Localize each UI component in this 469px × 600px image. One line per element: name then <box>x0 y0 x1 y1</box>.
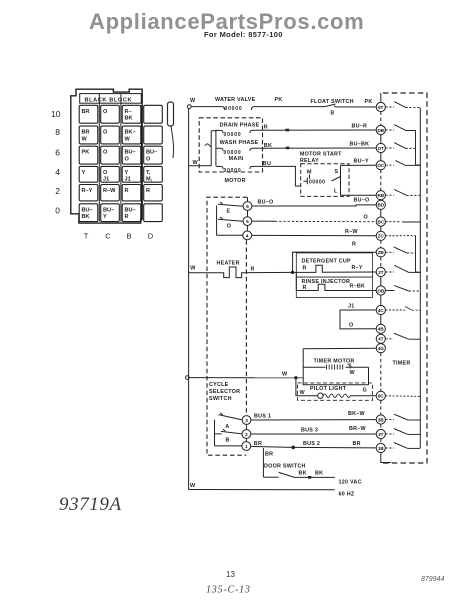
connector dot BK door <box>308 476 311 479</box>
svg-text:RELAY: RELAY <box>300 158 319 164</box>
svg-text:MAIN: MAIN <box>229 156 244 162</box>
terminal OB <box>376 286 385 295</box>
terminal ZB <box>376 248 385 257</box>
connector outline <box>71 89 142 223</box>
svg-text:BR: BR <box>82 109 90 115</box>
terminal 4 <box>243 231 252 240</box>
svg-text:BLACK BLOCK: BLACK BLOCK <box>85 97 133 103</box>
svg-text:DRAIN PHASE: DRAIN PHASE <box>220 122 260 128</box>
svg-text:00000: 00000 <box>309 180 325 186</box>
cycle selector right dashed edge <box>245 240 247 415</box>
svg-text:W: W <box>190 98 196 104</box>
wire 1B to bottom edge <box>381 453 391 463</box>
junction dot heater R <box>291 271 294 274</box>
motor internal rail 2 <box>211 130 216 166</box>
switch 2T <box>385 271 394 273</box>
cell row0 col D <box>144 204 163 222</box>
switch 4T <box>385 338 393 340</box>
switch OC <box>385 164 394 166</box>
svg-text:1B: 1B <box>378 446 385 451</box>
switch ZB <box>385 251 394 253</box>
svg-text:FLOAT SWITCH: FLOAT SWITCH <box>311 99 354 105</box>
terminal RB <box>376 191 385 200</box>
terminal OT <box>376 143 385 152</box>
svg-text:BU: BU <box>263 161 271 167</box>
svg-text:R: R <box>303 285 307 291</box>
wire terminal 6 drop <box>247 197 249 201</box>
main winding coil curls <box>216 166 254 169</box>
svg-text:120 VAC: 120 VAC <box>339 479 362 485</box>
cell row4 col D <box>144 166 163 182</box>
svg-text:SWITCH: SWITCH <box>209 396 232 402</box>
wire BU main winding <box>254 166 301 186</box>
junction dot W mid <box>294 376 297 379</box>
svg-text:4: 4 <box>55 167 60 177</box>
svg-text:O: O <box>125 157 130 163</box>
svg-text:BU–: BU– <box>82 207 93 213</box>
row number labels <box>51 109 61 216</box>
wire BUS 3 <box>251 433 376 435</box>
switch 8C <box>385 395 420 398</box>
terminal BD <box>376 200 385 209</box>
cell row8 col D <box>144 126 163 144</box>
svg-text:M,: M, <box>146 177 153 183</box>
svg-text:4C: 4C <box>378 308 385 313</box>
svg-text:A: A <box>225 424 229 430</box>
cell row4 col T <box>79 166 98 182</box>
svg-text:OT: OT <box>378 146 385 151</box>
wire 6-5-4 column <box>246 210 248 231</box>
column separator C/B <box>120 94 122 222</box>
wire terminal 4 left <box>217 234 243 236</box>
terminal 6T <box>376 102 385 111</box>
svg-text:BU–O: BU–O <box>258 200 274 206</box>
svg-text:2: 2 <box>55 186 60 196</box>
wire R junction up to ZB <box>293 252 377 272</box>
motor enclosure dashed box <box>199 118 262 172</box>
relay S-L vertical <box>340 165 342 195</box>
svg-text:BC: BC <box>377 219 384 224</box>
jumper J1 loop <box>340 310 376 329</box>
svg-text:TIMER MOTOR: TIMER MOTOR <box>314 358 355 364</box>
cell row8 col C <box>101 126 120 144</box>
terminal 8C <box>376 391 385 400</box>
heater element <box>189 267 248 278</box>
terminal 2 <box>242 430 251 439</box>
switch OT <box>385 147 394 149</box>
svg-text:4T: 4T <box>378 337 384 342</box>
door switch branch drop <box>262 448 264 477</box>
switch E blade <box>218 202 243 206</box>
svg-text:BR: BR <box>82 130 90 136</box>
svg-text:R: R <box>125 214 129 220</box>
cell wire labels <box>82 109 158 220</box>
svg-text:8C: 8C <box>378 394 385 399</box>
cell row8 col B <box>122 126 141 144</box>
wire BU-O relay L to RB <box>341 194 377 196</box>
wire W mid <box>189 377 304 379</box>
cell row6 col T <box>79 146 98 164</box>
terminal 1 <box>242 442 251 451</box>
svg-text:W: W <box>190 266 196 272</box>
svg-text:879944: 879944 <box>421 576 444 583</box>
cell row6 col B <box>122 146 141 164</box>
cell row10 col B <box>122 105 141 123</box>
switch DB <box>385 129 394 131</box>
svg-text:W: W <box>125 136 131 142</box>
terminal BC <box>376 217 385 226</box>
svg-text:Y: Y <box>125 170 129 176</box>
terminal DB <box>376 125 385 134</box>
svg-text:BK: BK <box>82 214 90 220</box>
svg-text:O: O <box>103 170 108 176</box>
timer column dashed segments <box>380 112 382 444</box>
svg-text:ZB: ZB <box>378 250 385 255</box>
svg-text:00000: 00000 <box>225 106 243 112</box>
svg-text:3T: 3T <box>378 432 384 437</box>
wire water valve feed <box>191 106 222 108</box>
cell row8 col T <box>79 126 98 144</box>
wire R-W terminal 4 to ZC <box>252 234 377 236</box>
svg-text:BK–W: BK–W <box>348 411 366 417</box>
connector dot R wire <box>286 129 290 132</box>
black block title box <box>80 94 142 104</box>
switch RB <box>385 194 394 196</box>
terminal 5 <box>243 217 252 226</box>
detergent cup actuator <box>293 265 377 272</box>
column letter labels <box>84 232 154 241</box>
motor internal rail 1 <box>210 131 212 166</box>
bus tie at OC row <box>416 164 421 166</box>
svg-text:BK: BK <box>299 471 307 477</box>
svg-text:BUS 1: BUS 1 <box>254 413 271 419</box>
connector cells grid <box>79 105 162 221</box>
wire BUS 1 <box>251 419 376 421</box>
terminal 2T <box>376 267 385 276</box>
motor thermal protector <box>204 144 211 147</box>
drain phase coil curls <box>216 130 254 133</box>
selector pivot rail lower <box>214 420 216 446</box>
svg-text:DOOR SWITCH: DOOR SWITCH <box>264 464 306 470</box>
svg-text:R–Y: R–Y <box>352 265 363 271</box>
svg-text:J1: J1 <box>125 177 131 183</box>
switch 1B <box>385 447 394 449</box>
cell row6 col C <box>101 146 120 164</box>
svg-text:BR–W: BR–W <box>349 426 367 432</box>
terminal 4B <box>376 324 385 333</box>
svg-text:PK: PK <box>82 150 90 156</box>
svg-text:5: 5 <box>246 219 249 224</box>
timer motor coil hatches <box>327 365 343 370</box>
svg-text:T,: T, <box>146 170 151 176</box>
svg-text:WATER VALVE: WATER VALVE <box>215 97 256 103</box>
svg-text:PK: PK <box>365 99 373 105</box>
door switch blade <box>279 472 295 477</box>
svg-text:R: R <box>352 241 356 247</box>
svg-text:60 HZ: 60 HZ <box>339 492 355 498</box>
cycle selector switch dashed box <box>207 197 247 455</box>
svg-text:R–BK: R–BK <box>350 284 366 290</box>
svg-text:R: R <box>125 188 129 194</box>
svg-text:1: 1 <box>245 444 248 449</box>
switch OB <box>385 290 394 292</box>
svg-text:BK: BK <box>315 471 323 477</box>
svg-text:OB: OB <box>377 288 385 293</box>
svg-text:O: O <box>103 130 108 136</box>
svg-text:G: G <box>363 387 367 393</box>
svg-text:BR: BR <box>254 441 262 447</box>
cell row4 col B <box>122 166 141 182</box>
switch 6T <box>385 106 394 108</box>
svg-text:J1: J1 <box>348 303 355 309</box>
pin lead arc <box>171 127 174 159</box>
relay M stub <box>309 175 311 179</box>
cell row10 col C <box>101 105 120 123</box>
svg-text:W: W <box>300 390 306 396</box>
switch ZC <box>385 235 415 237</box>
wire BK door switch left <box>263 476 278 478</box>
selector pivot rail upper <box>216 206 218 236</box>
svg-text:R–W: R–W <box>345 229 358 235</box>
bus tie at 2T row <box>416 271 421 273</box>
svg-text:W: W <box>193 160 199 166</box>
svg-text:BU–: BU– <box>103 207 114 213</box>
switch BC <box>385 221 401 223</box>
svg-text:SELECTOR: SELECTOR <box>209 389 240 395</box>
svg-text:BK: BK <box>264 143 272 149</box>
switch B blade <box>215 429 243 434</box>
svg-text:RINSE INJECTOR: RINSE INJECTOR <box>302 279 351 285</box>
wire R heater to junction <box>248 271 293 273</box>
svg-text:6: 6 <box>246 204 249 209</box>
cell row0 col T <box>79 204 98 222</box>
svg-text:C: C <box>105 232 111 241</box>
svg-text:E: E <box>227 209 231 215</box>
svg-text:B: B <box>226 437 230 443</box>
svg-text:R: R <box>264 125 268 131</box>
svg-text:DB: DB <box>377 128 384 133</box>
svg-text:O: O <box>146 157 151 163</box>
svg-text:PK: PK <box>275 97 283 103</box>
timer terminal column line <box>380 93 382 344</box>
svg-text:BU–Y: BU–Y <box>354 159 370 165</box>
wire terminal 1 left <box>215 445 243 447</box>
cell row10 col D <box>144 105 163 123</box>
wire BK wash phase <box>254 147 377 149</box>
detergent cup enclosure <box>296 253 372 277</box>
wire 3-2 column <box>245 424 247 443</box>
pilot light filament wave <box>323 394 350 397</box>
junction dot BUS 2 <box>291 446 295 450</box>
float switch blade <box>325 104 337 107</box>
svg-text:BUS 2: BUS 2 <box>303 441 320 447</box>
column separator T/C <box>98 94 100 222</box>
svg-text:BK: BK <box>125 116 133 122</box>
svg-text:TIMER: TIMER <box>393 361 411 367</box>
svg-text:0: 0 <box>55 206 60 216</box>
switch 4C <box>385 309 405 311</box>
terminal 4T <box>376 334 385 343</box>
terminal 3 <box>242 416 251 425</box>
pilot light enclosure <box>298 383 373 400</box>
svg-text:R–W: R–W <box>103 188 116 194</box>
motor start relay dashed box <box>301 164 349 197</box>
terminal OC <box>376 161 385 170</box>
svg-text:O: O <box>103 150 108 156</box>
cell row6 col D <box>144 146 163 164</box>
wire BU-Y relay to OC <box>341 164 377 166</box>
svg-text:W: W <box>190 483 196 489</box>
wire BU-O terminal 6 to BD <box>252 205 376 206</box>
wire R junction down to rinse row <box>295 272 297 290</box>
switch A blade <box>218 413 242 420</box>
cell row0 col B <box>122 204 141 222</box>
wire W drop to pilot light <box>296 378 318 396</box>
svg-text:00000: 00000 <box>224 132 242 138</box>
svg-text:B: B <box>126 232 131 241</box>
wire BK door switch right <box>295 476 335 478</box>
svg-text:BU–: BU– <box>125 150 136 156</box>
wire PK water valve to float switch <box>254 106 325 108</box>
wire 4G to timer motor <box>303 347 376 350</box>
svg-text:6: 6 <box>55 147 60 157</box>
svg-text:Y: Y <box>82 170 86 176</box>
svg-text:R–: R– <box>125 109 132 115</box>
svg-text:00000: 00000 <box>224 168 242 174</box>
svg-text:HEATER: HEATER <box>217 261 240 267</box>
svg-text:BR: BR <box>353 441 361 447</box>
svg-text:BU–: BU– <box>146 150 157 156</box>
svg-text:ZC: ZC <box>378 234 385 239</box>
svg-text:2T: 2T <box>378 270 384 275</box>
wash phase coil curls <box>216 148 254 151</box>
switch O blade <box>218 217 243 221</box>
svg-text:MOTOR: MOTOR <box>225 178 246 184</box>
terminal 6 <box>243 202 252 211</box>
terminal 3T <box>376 429 385 438</box>
svg-text:4B: 4B <box>378 327 385 332</box>
water valve coil curls <box>222 107 254 110</box>
column separator B/D <box>140 105 142 221</box>
wire R drain phase <box>254 129 377 131</box>
svg-text:4G: 4G <box>378 346 385 351</box>
svg-text:O: O <box>103 109 108 115</box>
svg-text:W: W <box>282 371 288 377</box>
cell row2 col T <box>79 185 98 201</box>
svg-text:O: O <box>364 215 368 221</box>
svg-text:PILOT LIGHT: PILOT LIGHT <box>310 386 347 392</box>
wire motor feed from bus <box>189 165 212 167</box>
svg-text:J1: J1 <box>103 177 109 183</box>
svg-text:WASH PHASE: WASH PHASE <box>220 140 259 146</box>
cell row2 col B <box>122 185 141 201</box>
svg-text:135-C-13: 135-C-13 <box>206 585 251 596</box>
svg-text:3: 3 <box>245 418 248 423</box>
switch 3T <box>385 433 394 435</box>
svg-text:4: 4 <box>246 233 249 238</box>
svg-text:D: D <box>148 232 154 241</box>
svg-text:W: W <box>350 370 356 376</box>
svg-text:BK–: BK– <box>125 130 136 136</box>
terminal 4G <box>376 344 385 353</box>
svg-text:For Model: 8577-100: For Model: 8577-100 <box>204 30 283 39</box>
svg-text:MOTOR START: MOTOR START <box>300 152 342 158</box>
cell row4 col C <box>101 166 120 182</box>
wire BUS 2 <box>251 446 377 448</box>
svg-text:B: B <box>331 111 335 117</box>
svg-text:R: R <box>303 265 307 271</box>
svg-text:00000: 00000 <box>224 150 242 156</box>
node W top terminal ring <box>187 105 191 109</box>
svg-text:W: W <box>82 136 88 142</box>
svg-text:6T: 6T <box>378 105 384 110</box>
cell row10 col T <box>79 105 98 123</box>
svg-text:13: 13 <box>226 570 235 579</box>
svg-text:R–Y: R–Y <box>82 188 93 194</box>
svg-text:S: S <box>335 169 339 175</box>
svg-text:RB: RB <box>377 193 384 198</box>
connector dot BK wire <box>286 147 290 150</box>
svg-text:BD: BD <box>377 203 384 208</box>
svg-text:BUS 3: BUS 3 <box>301 427 318 433</box>
terminal 3B <box>376 415 385 424</box>
svg-text:8: 8 <box>55 127 60 137</box>
svg-text:OC: OC <box>377 163 385 168</box>
terminal 4C <box>376 305 385 314</box>
wire PK float switch to 6T <box>337 106 377 108</box>
switch 3B <box>385 419 394 421</box>
node W mid bus ring <box>186 376 190 380</box>
svg-text:R: R <box>146 188 150 194</box>
wire O terminal 5 to BC <box>252 220 275 222</box>
timer motor coil wire <box>303 366 368 368</box>
svg-text:2: 2 <box>245 432 248 437</box>
svg-text:10: 10 <box>51 109 61 119</box>
timer main bus <box>419 108 421 448</box>
timer enclosure dashed box <box>381 93 428 463</box>
svg-text:93719A: 93719A <box>59 494 122 515</box>
wire G pilot to 8C <box>350 395 376 397</box>
svg-text:M: M <box>307 170 312 176</box>
svg-text:BU–R: BU–R <box>352 124 368 130</box>
terminal 1B <box>376 443 385 452</box>
timer motor connector tick <box>348 363 352 369</box>
wire W left bus <box>188 109 190 490</box>
terminal ZC <box>376 231 385 240</box>
connector pin pill <box>168 102 174 126</box>
cell row0 col C <box>101 204 120 222</box>
relay armature riser <box>332 177 341 182</box>
svg-text:DETERGENT CUP: DETERGENT CUP <box>302 259 352 265</box>
svg-text:Y: Y <box>103 214 107 220</box>
cell row2 col C <box>101 185 120 201</box>
svg-text:T: T <box>84 232 89 241</box>
pilot light lamp <box>318 393 323 398</box>
svg-text:O: O <box>349 322 353 328</box>
rinse injector actuator <box>296 284 376 290</box>
cell row2 col D <box>144 185 163 201</box>
timer motor left lead <box>303 349 368 385</box>
svg-text:O: O <box>227 224 231 230</box>
relay coil lead tick <box>304 178 308 184</box>
svg-text:L: L <box>334 189 338 195</box>
svg-text:CYCLE: CYCLE <box>209 382 229 388</box>
svg-text:BU–BK: BU–BK <box>350 142 370 148</box>
svg-text:BU–: BU– <box>125 207 136 213</box>
svg-text:BU–O: BU–O <box>354 198 370 204</box>
rinse injector enclosure <box>296 277 372 297</box>
wire W bottom <box>189 489 335 491</box>
